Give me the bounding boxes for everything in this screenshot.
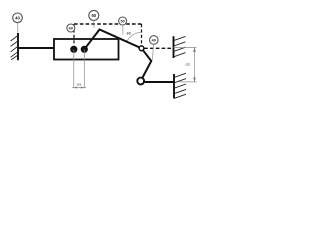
pin FC1 (filled) — [70, 46, 77, 53]
svg-text:50: 50 — [120, 20, 124, 24]
svg-text:60: 60 — [69, 27, 73, 31]
left fixed wall — [11, 33, 18, 60]
dimension Delta-a arrow line — [72, 87, 86, 89]
svg-text:40: 40 — [152, 39, 156, 43]
svg-text:Δa: Δa — [76, 83, 81, 87]
dimension Delta-a extension lines — [73, 49, 75, 88]
pin joint P3 (open) — [139, 46, 144, 51]
svg-text:60: 60 — [126, 32, 130, 36]
leader line from label 50 to link — [122, 25, 124, 35]
dashed vertical to left pin — [73, 24, 75, 47]
angle arc at pin joint — [127, 32, 142, 42]
svg-text:60: 60 — [91, 13, 96, 18]
dashed nominal line to right wall — [144, 47, 173, 49]
label circle 50 (on dashed line) — [119, 17, 127, 25]
label circle 60 (at dashed corner) — [67, 24, 75, 32]
lower revolute joint J (open) — [137, 78, 144, 85]
label circle 40 (left support) — [13, 13, 23, 23]
svg-text:40: 40 — [15, 15, 20, 20]
dashed vertical to pin joint — [141, 24, 143, 46]
rod from wall to slider — [18, 47, 55, 49]
svg-text:Δb: Δb — [184, 63, 189, 67]
upper right fixed wall — [174, 36, 186, 58]
horizontal link to lower right wall — [141, 81, 174, 83]
hatch marks left wall — [11, 36, 18, 41]
pin FC2 (filled) — [81, 46, 88, 53]
leader line from label 40 to wall — [17, 23, 19, 34]
link A (bent link from slider pin over peak to pin joint) — [84, 30, 141, 50]
leader line from label 40 to elbow — [152, 44, 153, 59]
label circle 40 (elbow) — [150, 36, 159, 45]
lower right fixed wall — [174, 73, 186, 98]
dimension Delta-b arrow line — [194, 48, 196, 82]
label circle 60 (peak) — [89, 10, 99, 20]
dimension Delta-b extension lines — [174, 47, 197, 49]
link B (bell crank: pin joint - elbow - lower joint) — [141, 48, 152, 81]
dashed nominal horizontal line — [74, 23, 142, 25]
leader line from label 60 to peak — [93, 20, 95, 27]
slider block rectangle — [54, 39, 119, 60]
